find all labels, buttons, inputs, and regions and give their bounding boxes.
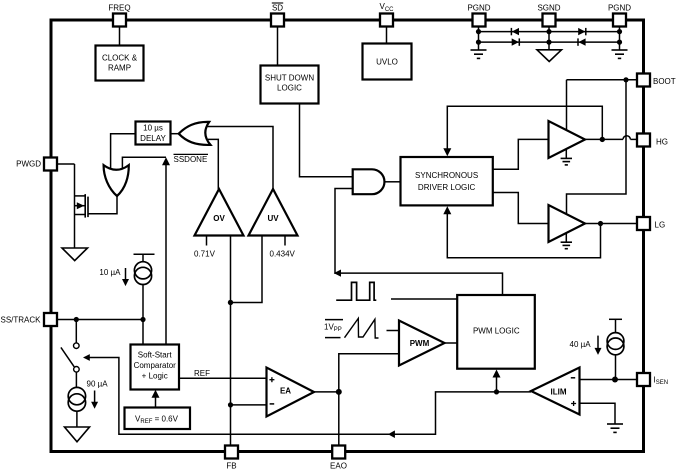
wire FREQ to clock box [119, 27, 121, 46]
waveform 1Vpp marker [324, 320, 343, 338]
block PWM LOGIC [457, 295, 535, 369]
diode D3 top-right (points right) [578, 28, 586, 35]
wire BOOT rail [567, 79, 638, 81]
svg-text:LG: LG [655, 221, 666, 230]
pin FB [225, 446, 238, 471]
node ILIM/PWM junction [494, 389, 499, 394]
svg-text:FREQ: FREQ [108, 4, 130, 13]
diode D4 bottom-right (points left) [578, 38, 586, 45]
pin BOOT [637, 74, 676, 87]
wire REF to EA [179, 377, 267, 379]
node SS switch junction [74, 317, 79, 322]
waveform pulse train [336, 282, 376, 300]
wire VREF into soft-start (arrow up) [152, 390, 160, 408]
node arrow into driver logic bottom [443, 206, 451, 214]
svg-text:0.71V: 0.71V [194, 250, 216, 259]
node EA output junction [336, 389, 342, 395]
ground PGND1 (bar style) [471, 50, 487, 58]
ground 90uA (open triangle) [65, 427, 90, 442]
pin VCC [379, 2, 394, 26]
current source 10uA [134, 254, 155, 319]
svg-text:PWGD: PWGD [16, 160, 41, 169]
svg-text:UV: UV [267, 214, 279, 223]
wire FB vertical line [230, 236, 232, 446]
pin SS/TRACK [0, 313, 57, 326]
ground HG driver [561, 149, 572, 165]
svg-text:FB: FB [226, 462, 236, 471]
diode D2 bottom-left (points right) [512, 38, 520, 45]
node SSDONE up arrow [162, 157, 170, 165]
comparator ILIM [531, 368, 580, 415]
wire HG output with hop over boot wire [585, 136, 637, 140]
ground ILIM (bar style) [607, 424, 623, 432]
wire BOOT junction down to LG driver supply [567, 80, 627, 214]
comparator PWM [399, 321, 445, 366]
wire LG node feedback to driver logic bottom [447, 214, 600, 258]
svg-text:UVLO: UVLO [376, 58, 398, 67]
wire diode top rail [479, 31, 620, 33]
svg-text:SGND: SGND [537, 4, 560, 13]
block CLOCK & RAMP [96, 46, 144, 81]
svg-text:ILIM: ILIM [551, 388, 567, 397]
svg-text:EAO: EAO [330, 462, 347, 471]
svg-text:EA: EA [280, 387, 291, 396]
current source 40uA [607, 319, 624, 379]
wire UV sense down to FB node [231, 236, 263, 303]
wire EA output [314, 391, 339, 393]
label 90 uA with arrow [87, 380, 109, 409]
wire VCC to UVLO [386, 27, 388, 44]
svg-text:DRIVER LOGIC: DRIVER LOGIC [418, 183, 476, 192]
svg-text:10 µA: 10 µA [99, 268, 121, 277]
wire EA minus input [231, 404, 267, 406]
label 40 uA with arrow [570, 336, 602, 355]
node FB/EA junction [228, 402, 233, 407]
svg-text:OV: OV [213, 214, 225, 223]
wire diode bottom rail [479, 41, 620, 43]
node BOOT junction [623, 77, 628, 82]
block SYNCHRONOUS DRIVER LOGIC [401, 157, 493, 205]
svg-text:PGND: PGND [467, 4, 490, 13]
svg-text:HG: HG [656, 138, 668, 147]
wire AND lower input from PWM logic [335, 189, 503, 296]
wire ILIM plus input to ground [580, 403, 616, 424]
gate OR2 (points down) [104, 165, 129, 196]
node FB/UV junction [228, 300, 233, 305]
svg-text:10 µs: 10 µs [143, 123, 163, 132]
ground mosfet source (open triangle) [62, 248, 88, 261]
label SSDONE [174, 154, 209, 164]
wire UV ref stub [284, 236, 286, 246]
wire delay output to OR2 [111, 134, 136, 170]
wire HG node feedback to driver logic top [447, 106, 602, 149]
op-amp EA [267, 368, 315, 417]
wire PWGD to mosfet drain [57, 163, 75, 165]
comparator OV [195, 189, 244, 236]
svg-text:+ Logic: + Logic [142, 372, 168, 381]
node arrow left on ILIM wire [388, 430, 395, 438]
pin SGND [537, 4, 560, 27]
wire SD to shutdown logic [277, 27, 279, 66]
wire BOOT to HG driver supply [566, 80, 568, 130]
wire PGND1 stem [478, 27, 480, 51]
wire driver logic to HG driver input [493, 139, 549, 169]
svg-text:PWM LOGIC: PWM LOGIC [473, 327, 520, 336]
svg-text:CLOCK &: CLOCK & [102, 54, 138, 63]
wire shutdown logic to AND gate [300, 104, 353, 177]
ground PGND2 (bar style) [612, 50, 628, 58]
node arrow left at corner [334, 270, 341, 277]
waveform sawtooth ramp [345, 318, 379, 338]
svg-text:40 µA: 40 µA [570, 340, 592, 349]
pin PWGD [16, 158, 57, 171]
wire SSDONE vertical from soft-start [165, 165, 167, 345]
svg-text:Comparator: Comparator [134, 361, 177, 370]
svg-text:SHUT DOWN: SHUT DOWN [265, 74, 314, 83]
wire ISEN rail [580, 379, 638, 381]
transistor Q1 (PWGD open drain, gate at right) [75, 164, 89, 248]
pin EAO [330, 446, 347, 471]
gate AND [353, 169, 385, 194]
svg-text:SD: SD [272, 4, 283, 13]
node arrow into driver logic top [443, 148, 451, 156]
switch SS discharge [61, 320, 79, 388]
svg-text:RAMP: RAMP [108, 64, 131, 73]
svg-text:90 µA: 90 µA [87, 380, 109, 389]
wire SS/TRACK rail [57, 319, 144, 321]
wire ILIM output to PWM logic and switch [90, 358, 532, 435]
block SHUT DOWN LOGIC [261, 66, 319, 104]
wire PWM output to PWM logic [445, 342, 458, 344]
wire SS into soft-start box [142, 320, 144, 345]
svg-text:SSDONE: SSDONE [174, 155, 208, 164]
wire AND output to driver logic [385, 181, 401, 183]
pin PGND (right) [608, 4, 631, 27]
wire driver logic to LG driver input [493, 193, 549, 224]
svg-text:SYNCHRONOUS: SYNCHRONOUS [415, 171, 478, 180]
wire ramp to PWM input [387, 330, 400, 332]
wire pulse input to PWM logic [391, 298, 457, 300]
svg-text:DELAY: DELAY [140, 134, 166, 143]
current source 90uA [68, 387, 85, 427]
block Soft-Start Comparator + Logic [131, 345, 180, 390]
wire UV output to OR1 upper input [207, 127, 274, 190]
diode D1 top-left (points left) [511, 28, 519, 35]
node LG output junction [598, 221, 603, 226]
svg-text:SS/TRACK: SS/TRACK [0, 316, 41, 325]
comparator UV [249, 189, 298, 236]
ground SGND (open triangle) [537, 50, 562, 62]
pin HG [637, 134, 668, 147]
svg-text:Soft-Start: Soft-Start [138, 351, 173, 360]
wire PGND2 stem [619, 27, 621, 51]
pin SD (active low) [271, 3, 284, 27]
wire OV ref stub [206, 236, 208, 246]
wire OV output to OR1 lower input [207, 139, 219, 189]
svg-text:BOOT: BOOT [653, 77, 676, 86]
node arrow into switch [83, 354, 90, 361]
ground LG driver [561, 233, 572, 249]
pin ISEN [637, 373, 668, 386]
svg-text:0.434V: 0.434V [270, 250, 296, 259]
wire OR2 output to mosfet gate [88, 196, 117, 214]
block 10us DELAY [136, 122, 171, 145]
op-amp HG driver [549, 121, 586, 158]
wire EA node to EAO pin [338, 392, 340, 446]
pin FREQ [108, 4, 130, 27]
node HG output junction [600, 137, 605, 142]
block VREF [125, 408, 191, 430]
gate OR1 (mirrored, points left) [179, 122, 211, 145]
svg-text:LOGIC: LOGIC [277, 84, 302, 93]
node SS source junction [140, 317, 145, 322]
svg-text:PWM: PWM [410, 339, 430, 348]
node rail junctions [476, 29, 622, 45]
pin PGND (left) [467, 4, 490, 27]
wire EA node up to PWM comparator [339, 354, 399, 392]
op-amp LG driver [549, 205, 586, 242]
pin LG [637, 217, 665, 230]
wire OR1 output to delay box [171, 133, 179, 135]
block UVLO [363, 44, 412, 80]
wire SSDONE horizontal into OR2 [122, 157, 166, 169]
wire SGND stem [548, 27, 550, 50]
label 10 uA with arrow [99, 268, 129, 286]
wire LG output [585, 223, 637, 225]
svg-text:REF: REF [194, 369, 210, 378]
wire ILIM node up into PWM logic (arrow) [493, 370, 501, 392]
svg-text:PGND: PGND [608, 4, 631, 13]
node ISEN junction [612, 377, 618, 383]
